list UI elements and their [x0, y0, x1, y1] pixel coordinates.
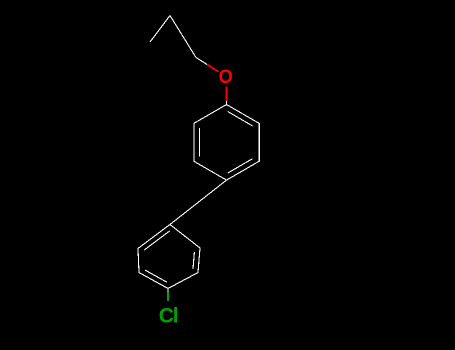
aromatic inner line (LR-B) — [228, 159, 253, 173]
bond ring-Cl white part — [167, 289, 169, 292]
bond CH3-CH2 — [150, 16, 170, 43]
bond CH2-O white part — [196, 58, 207, 65]
bond CH2-O red part — [207, 64, 219, 71]
aromatic inner line lower ring c (UL-T) — [144, 231, 170, 250]
bond ring-Cl green part — [167, 292, 169, 301]
top benzene ring — [194, 105, 259, 181]
aromatic inner line (T-UR) — [228, 112, 253, 126]
aromatic inner line lower ring b (B-LL) — [145, 270, 167, 282]
bridge CH2-CH2 — [170, 180, 227, 224]
lower benzene ring — [138, 225, 200, 289]
svg-text:l: l — [173, 305, 179, 328]
aromatic inner line (LL-UL) — [198, 128, 200, 157]
svg-text:O: O — [219, 65, 233, 87]
bond O-ring red part — [226, 87, 228, 102]
aromatic inner line lower ring a (UR-LR right side) — [193, 252, 194, 269]
bond O-ring white part — [226, 101, 228, 105]
bond CH2-CH2 — [170, 16, 196, 58]
svg-text:C: C — [159, 305, 174, 328]
